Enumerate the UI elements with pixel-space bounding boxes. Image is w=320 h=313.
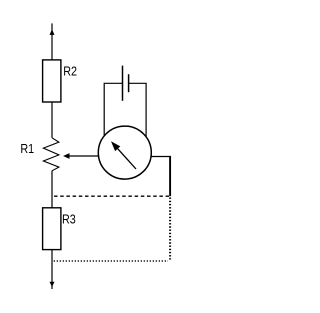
meter M1 (galvanometer circle) (98, 126, 151, 179)
resistor R3 (43, 208, 61, 250)
battery left lead wire (104, 83, 122, 136)
meter right terminal wire (151, 156, 171, 158)
meter needle (118, 149, 136, 169)
dashed feedback line (node A) (54, 195, 169, 197)
wire top vertical (input) (51, 23, 53, 60)
dotted bottom horizontal (54, 260, 168, 262)
wiper arrow of R1 (69, 155, 99, 157)
wire R1 to R3 (51, 171, 53, 208)
potentiometer R1 (zigzag) (43, 138, 59, 171)
battery short plate (128, 74, 130, 92)
wire right vertical solid (169, 157, 171, 197)
battery long plate (122, 66, 124, 101)
svg-text:R1: R1 (20, 141, 34, 156)
svg-text:R3: R3 (62, 212, 76, 227)
resistor R2 (43, 60, 61, 102)
wire R3 to bottom (51, 250, 53, 289)
wire R2 to R1 (51, 102, 53, 138)
dotted right vertical (169, 198, 171, 260)
arrow down (bottom terminal) (50, 282, 55, 287)
battery right lead wire (129, 83, 147, 136)
svg-text:R2: R2 (63, 64, 77, 79)
arrow up (top terminal) (50, 29, 55, 35)
